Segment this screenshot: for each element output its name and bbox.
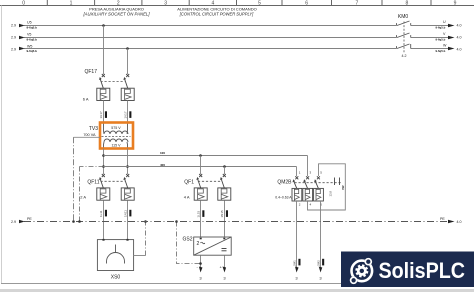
pole 3 bbox=[314, 176, 324, 201]
svg-text:0.4–0.63 A: 0.4–0.63 A bbox=[275, 196, 292, 200]
svg-text:2.9: 2.9 bbox=[11, 24, 16, 28]
svg-text:9-6q5.b: 9-6q5.b bbox=[436, 38, 446, 42]
svg-text:2.9: 2.9 bbox=[11, 47, 16, 51]
mechanical linkage bbox=[101, 81, 125, 83]
SolisPLC logo bbox=[341, 252, 474, 288]
svg-text:3: 3 bbox=[199, 275, 202, 280]
svg-text:3: 3 bbox=[295, 275, 298, 280]
svg-text:9-6q5.b: 9-6q5.b bbox=[436, 49, 446, 53]
node W5 source arrow bbox=[11, 44, 37, 53]
svg-text:2 A: 2 A bbox=[80, 195, 86, 200]
wire TV3 secondary a to QF11 pole 1 bbox=[103, 149, 105, 175]
svg-text:400: 400 bbox=[160, 163, 165, 167]
junction on U5 feeding QF17 pole 1 bbox=[102, 24, 105, 27]
svg-text:7: 7 bbox=[356, 1, 359, 7]
XS0 earth riser dash-dot bbox=[145, 222, 147, 256]
arrow to sheet 3 bbox=[295, 267, 299, 273]
pole 1 bbox=[292, 176, 302, 201]
svg-text:QF1: QF1 bbox=[184, 180, 194, 186]
wire QF1 pole2 to GS2 bbox=[224, 200, 226, 237]
ruler numbers bbox=[22, 1, 456, 7]
svg-text:9-6q5.b: 9-6q5.b bbox=[27, 25, 38, 29]
wire GS2 minus output bbox=[200, 255, 202, 270]
header function text column 2 bbox=[82, 7, 150, 17]
junction XS0 earth on PE bbox=[144, 220, 147, 223]
svg-text:3: 3 bbox=[164, 1, 167, 7]
svg-text:1L15: 1L15 bbox=[197, 210, 201, 217]
wire QF1 pole1 to GS2 bbox=[200, 200, 202, 237]
screen earth drop to PE bbox=[73, 137, 75, 221]
linkage bbox=[295, 182, 342, 184]
node V5 source arrow bbox=[11, 33, 37, 42]
junction QF1 pole2 tap bbox=[223, 165, 226, 168]
svg-text:V5: V5 bbox=[27, 33, 31, 37]
breaker QF17 bbox=[83, 69, 134, 101]
junction wire2 earth on PE bbox=[78, 220, 81, 223]
wire PE dash-dot bbox=[24, 221, 448, 223]
svg-text:0: 0 bbox=[22, 1, 25, 7]
svg-text:W: W bbox=[443, 44, 447, 48]
svg-text:[AUXILIARY SOCKET ON PANEL]: [AUXILIARY SOCKET ON PANEL] bbox=[82, 12, 150, 17]
svg-text:4: 4 bbox=[310, 203, 312, 207]
junction QF1 pole1 tap bbox=[199, 154, 202, 157]
svg-text:+: + bbox=[220, 265, 223, 270]
node PE source arrow bbox=[11, 217, 32, 224]
svg-text:V: V bbox=[443, 32, 446, 36]
winding screen bbox=[102, 136, 131, 138]
ruler bottom line bbox=[0, 0, 474, 6]
svg-text:-: - bbox=[197, 264, 199, 269]
svg-text:[CONTROL CIRCUIT POWER SUPPLY]: [CONTROL CIRCUIT POWER SUPPLY] bbox=[179, 12, 254, 17]
junction wire2 left bbox=[102, 165, 105, 168]
svg-text:5: 5 bbox=[258, 1, 261, 7]
svg-text:VW: VW bbox=[341, 185, 345, 190]
svg-text:4 A: 4 A bbox=[184, 195, 190, 200]
wire QM2B pole3 output bbox=[320, 201, 322, 270]
transformer TV3 bbox=[83, 123, 130, 149]
pole 1 bbox=[97, 74, 110, 101]
drawing frame bottom edge bbox=[1, 283, 474, 285]
orbit node bottom left bbox=[350, 277, 358, 285]
svg-text:700 VA: 700 VA bbox=[83, 133, 96, 137]
svg-text:13.8: 13.8 bbox=[329, 191, 333, 197]
svg-text:6: 6 bbox=[305, 1, 308, 7]
motor breaker QM2B bbox=[275, 164, 345, 210]
wire 100 horizontal distribution upper bbox=[104, 155, 308, 157]
wire W5 bus line 3 bbox=[24, 48, 448, 50]
svg-text:GS2: GS2 bbox=[182, 237, 192, 243]
breaker QF11 bbox=[80, 174, 134, 200]
wire QM2B pole1 output bbox=[296, 201, 298, 270]
GS2 minus earth dash-dot bbox=[177, 222, 201, 264]
wire U5 bus line 1 bbox=[24, 25, 448, 27]
svg-text:9: 9 bbox=[454, 1, 457, 7]
pole3 jumper loop bbox=[308, 164, 346, 210]
svg-text:2.9: 2.9 bbox=[11, 220, 16, 224]
wire 400 horizontal distribution lower bbox=[104, 166, 297, 168]
svg-text:3: 3 bbox=[223, 275, 226, 280]
svg-text:4.2: 4.2 bbox=[402, 54, 407, 58]
power supply GS2 bbox=[182, 237, 231, 256]
junction GS2 minus to PE bbox=[199, 262, 202, 265]
page bottom strip bbox=[0, 289, 474, 292]
svg-text:2M1: 2M1 bbox=[293, 260, 297, 266]
wire2 PE branch dash-dot bbox=[80, 166, 104, 168]
svg-text:1V17: 1V17 bbox=[124, 111, 128, 118]
header function text column 4 bbox=[177, 7, 256, 17]
svg-text:QF17: QF17 bbox=[84, 69, 97, 75]
svg-text:PE: PE bbox=[440, 217, 445, 221]
svg-text:PE: PE bbox=[27, 217, 32, 221]
wire TV3 secondary b to QF11 pole 2 bbox=[127, 149, 129, 175]
svg-text:9-6q5.b: 9-6q5.b bbox=[436, 26, 446, 30]
svg-text:2: 2 bbox=[299, 203, 301, 207]
svg-text:5: 5 bbox=[320, 171, 322, 175]
wire 400 drop to QM2B pole 1 bbox=[296, 167, 298, 177]
gear orbit ring bbox=[352, 261, 373, 282]
aux contact bars bbox=[335, 178, 340, 186]
arrow to sheet 3 bbox=[319, 267, 323, 273]
contactor KM0 bbox=[397, 14, 411, 58]
wire GS2 plus output bbox=[224, 255, 226, 270]
orbit node top right bbox=[365, 258, 373, 266]
node W destination arrow bbox=[436, 44, 462, 54]
svg-text:1L11: 1L11 bbox=[99, 210, 103, 217]
svg-text:2M2: 2M2 bbox=[316, 260, 320, 266]
svg-text:1U17: 1U17 bbox=[99, 111, 103, 119]
svg-text:9-6q5.b: 9-6q5.b bbox=[27, 37, 38, 41]
arrow to sheet 3 bbox=[199, 267, 203, 273]
wire tap to QF1 pole 2 bbox=[224, 167, 226, 175]
svg-text:2.9: 2.9 bbox=[11, 36, 16, 40]
svg-text:100: 100 bbox=[160, 151, 165, 155]
svg-text:1N15: 1N15 bbox=[220, 210, 224, 218]
node U destination arrow bbox=[436, 20, 462, 30]
svg-text:U5: U5 bbox=[27, 21, 32, 25]
node U5 source arrow bbox=[11, 21, 37, 30]
junction wire1 tap bbox=[102, 154, 105, 157]
svg-text:575 V: 575 V bbox=[111, 126, 121, 130]
gear bbox=[354, 263, 370, 279]
svg-text:4.0: 4.0 bbox=[457, 24, 462, 28]
breaker QF1 bbox=[184, 174, 231, 200]
junction on PE bbox=[175, 220, 178, 223]
svg-text:3: 3 bbox=[310, 171, 312, 175]
svg-text:KM0: KM0 bbox=[398, 14, 409, 20]
highlight box around TV3 bbox=[100, 123, 133, 149]
svg-text:QF11: QF11 bbox=[87, 180, 99, 186]
svg-text:TV3: TV3 bbox=[89, 126, 98, 132]
junction on W5 feeding QF17 pole 2 bbox=[126, 47, 129, 50]
node PE destination arrow bbox=[440, 217, 462, 224]
wire QF11 pole2 to XS0 bbox=[127, 200, 129, 239]
junction TV3 screen on PE bbox=[72, 220, 75, 223]
socket XS0 bbox=[97, 239, 133, 281]
svg-text:1: 1 bbox=[70, 1, 73, 7]
svg-text:4.0: 4.0 bbox=[457, 47, 462, 51]
svg-text:1N11: 1N11 bbox=[124, 210, 128, 217]
wire QF17 pole1 to TV3 bbox=[103, 101, 105, 123]
junction wire2 at pole2 bbox=[126, 165, 129, 168]
arrow to sheet 3 bbox=[223, 267, 227, 273]
svg-text:4.0: 4.0 bbox=[457, 36, 462, 40]
svg-text:QM2B: QM2B bbox=[277, 180, 292, 186]
XS0 earth link bbox=[134, 255, 146, 257]
svg-text:6 A: 6 A bbox=[83, 96, 89, 101]
svg-text:W5: W5 bbox=[27, 44, 32, 48]
node V destination arrow bbox=[436, 32, 462, 42]
wire from W5 to QF17 pole 2 bbox=[127, 49, 129, 75]
wire tap to QF1 pole 1 bbox=[200, 156, 202, 175]
svg-text:2: 2 bbox=[197, 241, 200, 247]
pole 2 bbox=[121, 74, 134, 101]
wire 100 drop to QM2B pole 2 bbox=[307, 156, 309, 177]
svg-text:SolisPLC: SolisPLC bbox=[379, 258, 466, 283]
wire QF17 pole2 to TV3 bbox=[127, 101, 129, 123]
screen earth wire bbox=[74, 136, 101, 138]
svg-text:U: U bbox=[443, 20, 446, 24]
wire from U5 to QF17 pole 1 bbox=[103, 26, 105, 75]
wire QF11 pole1 to XS0 bbox=[103, 200, 105, 239]
wire2 PE branch drop bbox=[79, 167, 81, 222]
svg-text:9-6q5.b: 9-6q5.b bbox=[27, 49, 38, 53]
svg-text:8: 8 bbox=[406, 1, 409, 7]
svg-text:XS0: XS0 bbox=[111, 275, 121, 281]
drawing frame left edge bbox=[1, 6, 3, 284]
wire V5 bus line 2 bbox=[24, 37, 448, 39]
svg-text:4.0: 4.0 bbox=[457, 220, 462, 224]
svg-text:115 V: 115 V bbox=[111, 144, 121, 148]
pole 2 bbox=[303, 176, 313, 201]
svg-text:3: 3 bbox=[319, 275, 322, 280]
svg-text:1: 1 bbox=[299, 171, 301, 175]
